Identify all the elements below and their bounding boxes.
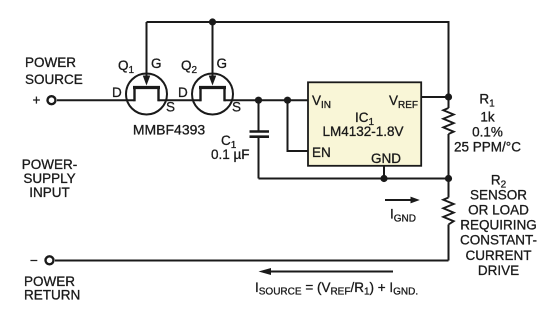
svg-text:DRIVE: DRIVE <box>478 263 519 278</box>
wire: ground rail (C1 to R2 node) <box>259 178 449 180</box>
label POWER RETURN <box>24 274 80 303</box>
svg-text:POWER: POWER <box>25 55 76 70</box>
node: VREF / top-rail / R1 junction <box>445 93 452 100</box>
transistor Q2 MMBF4393 <box>178 56 241 115</box>
label R2 sensor or load <box>460 173 537 278</box>
label R1 value <box>454 92 521 155</box>
svg-text:OR LOAD: OR LOAD <box>468 203 529 218</box>
label POWER-SUPPLY INPUT <box>22 157 78 200</box>
svg-text:0.1 µF: 0.1 µF <box>211 147 250 162</box>
node: R1/R2/rail junction <box>445 175 452 182</box>
capacitor C1 0.1uF <box>211 100 269 178</box>
svg-text:D: D <box>178 85 188 100</box>
svg-text:−: − <box>30 253 38 268</box>
svg-text:25 PPM/°C: 25 PPM/°C <box>454 140 521 155</box>
svg-text:LM4132-1.8V: LM4132-1.8V <box>322 124 403 139</box>
arrow: ISOURCE current direction <box>259 268 394 275</box>
node: GND pin junction <box>380 175 387 182</box>
svg-text:SUPPLY: SUPPLY <box>23 171 75 186</box>
svg-text:CONSTANT-: CONSTANT- <box>460 233 537 248</box>
svg-text:POWER-: POWER- <box>22 157 78 172</box>
svg-text:RETURN: RETURN <box>24 288 80 303</box>
wire: Q1 gate lead <box>146 22 148 77</box>
wire: Q2 source to VIN pin <box>225 99 309 101</box>
wire: Q2 gate lead <box>212 22 214 77</box>
wire: GND pin lead <box>383 166 385 179</box>
label POWER SOURCE <box>25 55 83 87</box>
svg-text:EN: EN <box>312 145 331 160</box>
svg-text:SOURCE: SOURCE <box>25 72 83 87</box>
svg-text:0.1%: 0.1% <box>472 125 503 140</box>
svg-text:G: G <box>151 56 162 71</box>
svg-text:S: S <box>232 100 241 115</box>
IC U1: voltage reference IC1 LM4132-1.8V <box>308 82 421 166</box>
arrow: IGND current direction <box>385 197 420 225</box>
svg-text:SENSOR: SENSOR <box>470 188 527 203</box>
wire: top rail (gates to VREF) <box>147 22 449 97</box>
wire: Q1 source to Q2 drain <box>159 99 201 101</box>
svg-text:REQUIRING: REQUIRING <box>460 218 537 233</box>
wire: + terminal to Q1 drain <box>57 99 135 101</box>
node: EN/VIN tap junction <box>284 97 291 104</box>
- terminal <box>30 253 54 268</box>
resistor R2 sensor/load <box>443 179 453 261</box>
svg-text:S: S <box>166 100 175 115</box>
wire: EN branch from VIN node <box>288 100 309 151</box>
transistor Q1 MMBF4393 <box>112 56 175 115</box>
svg-text:1k: 1k <box>480 110 495 125</box>
svg-text:MMBF4393: MMBF4393 <box>133 122 206 138</box>
resistor R1 1k <box>443 97 453 179</box>
wire: return rail (R2 to - terminal) <box>55 260 449 262</box>
svg-text:CURRENT: CURRENT <box>466 248 532 263</box>
svg-text:INPUT: INPUT <box>29 185 70 200</box>
node: C1 tap junction <box>255 97 262 104</box>
svg-text:GND: GND <box>371 151 401 166</box>
svg-text:G: G <box>217 56 228 71</box>
wire: VREF pin to node <box>421 96 449 98</box>
node: top rail junction above Q2 <box>209 18 216 25</box>
+ terminal <box>33 93 56 108</box>
svg-text:+: + <box>33 93 41 108</box>
svg-text:D: D <box>112 85 122 100</box>
